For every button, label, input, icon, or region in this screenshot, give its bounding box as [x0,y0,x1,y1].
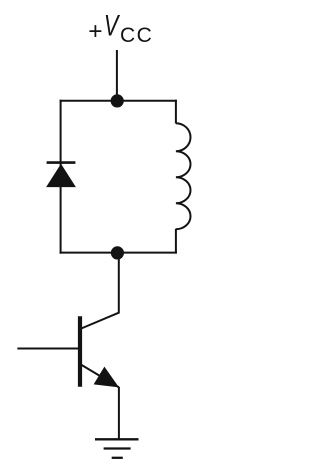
wire left branch [60,100,62,254]
svg-text:V: V [104,10,121,43]
wire right upper stub [175,100,177,124]
wire base lead [17,348,80,350]
wire bottom rail [60,252,177,254]
wire top rail [60,100,177,102]
wire collector lead [80,253,119,329]
wire emitter to ground [118,387,120,440]
wire VCC stem [116,50,118,101]
ground [95,439,139,458]
diode D1 [46,163,76,188]
svg-text:CC: CC [120,24,153,47]
transistor Q1 [80,316,119,387]
node A (top junction dot) [111,94,124,107]
svg-text:+: + [88,18,102,45]
node B (bottom junction dot) [111,246,124,259]
wire right lower stub [175,229,177,254]
inductor L1 [176,123,191,229]
node +VCC label [88,10,153,47]
